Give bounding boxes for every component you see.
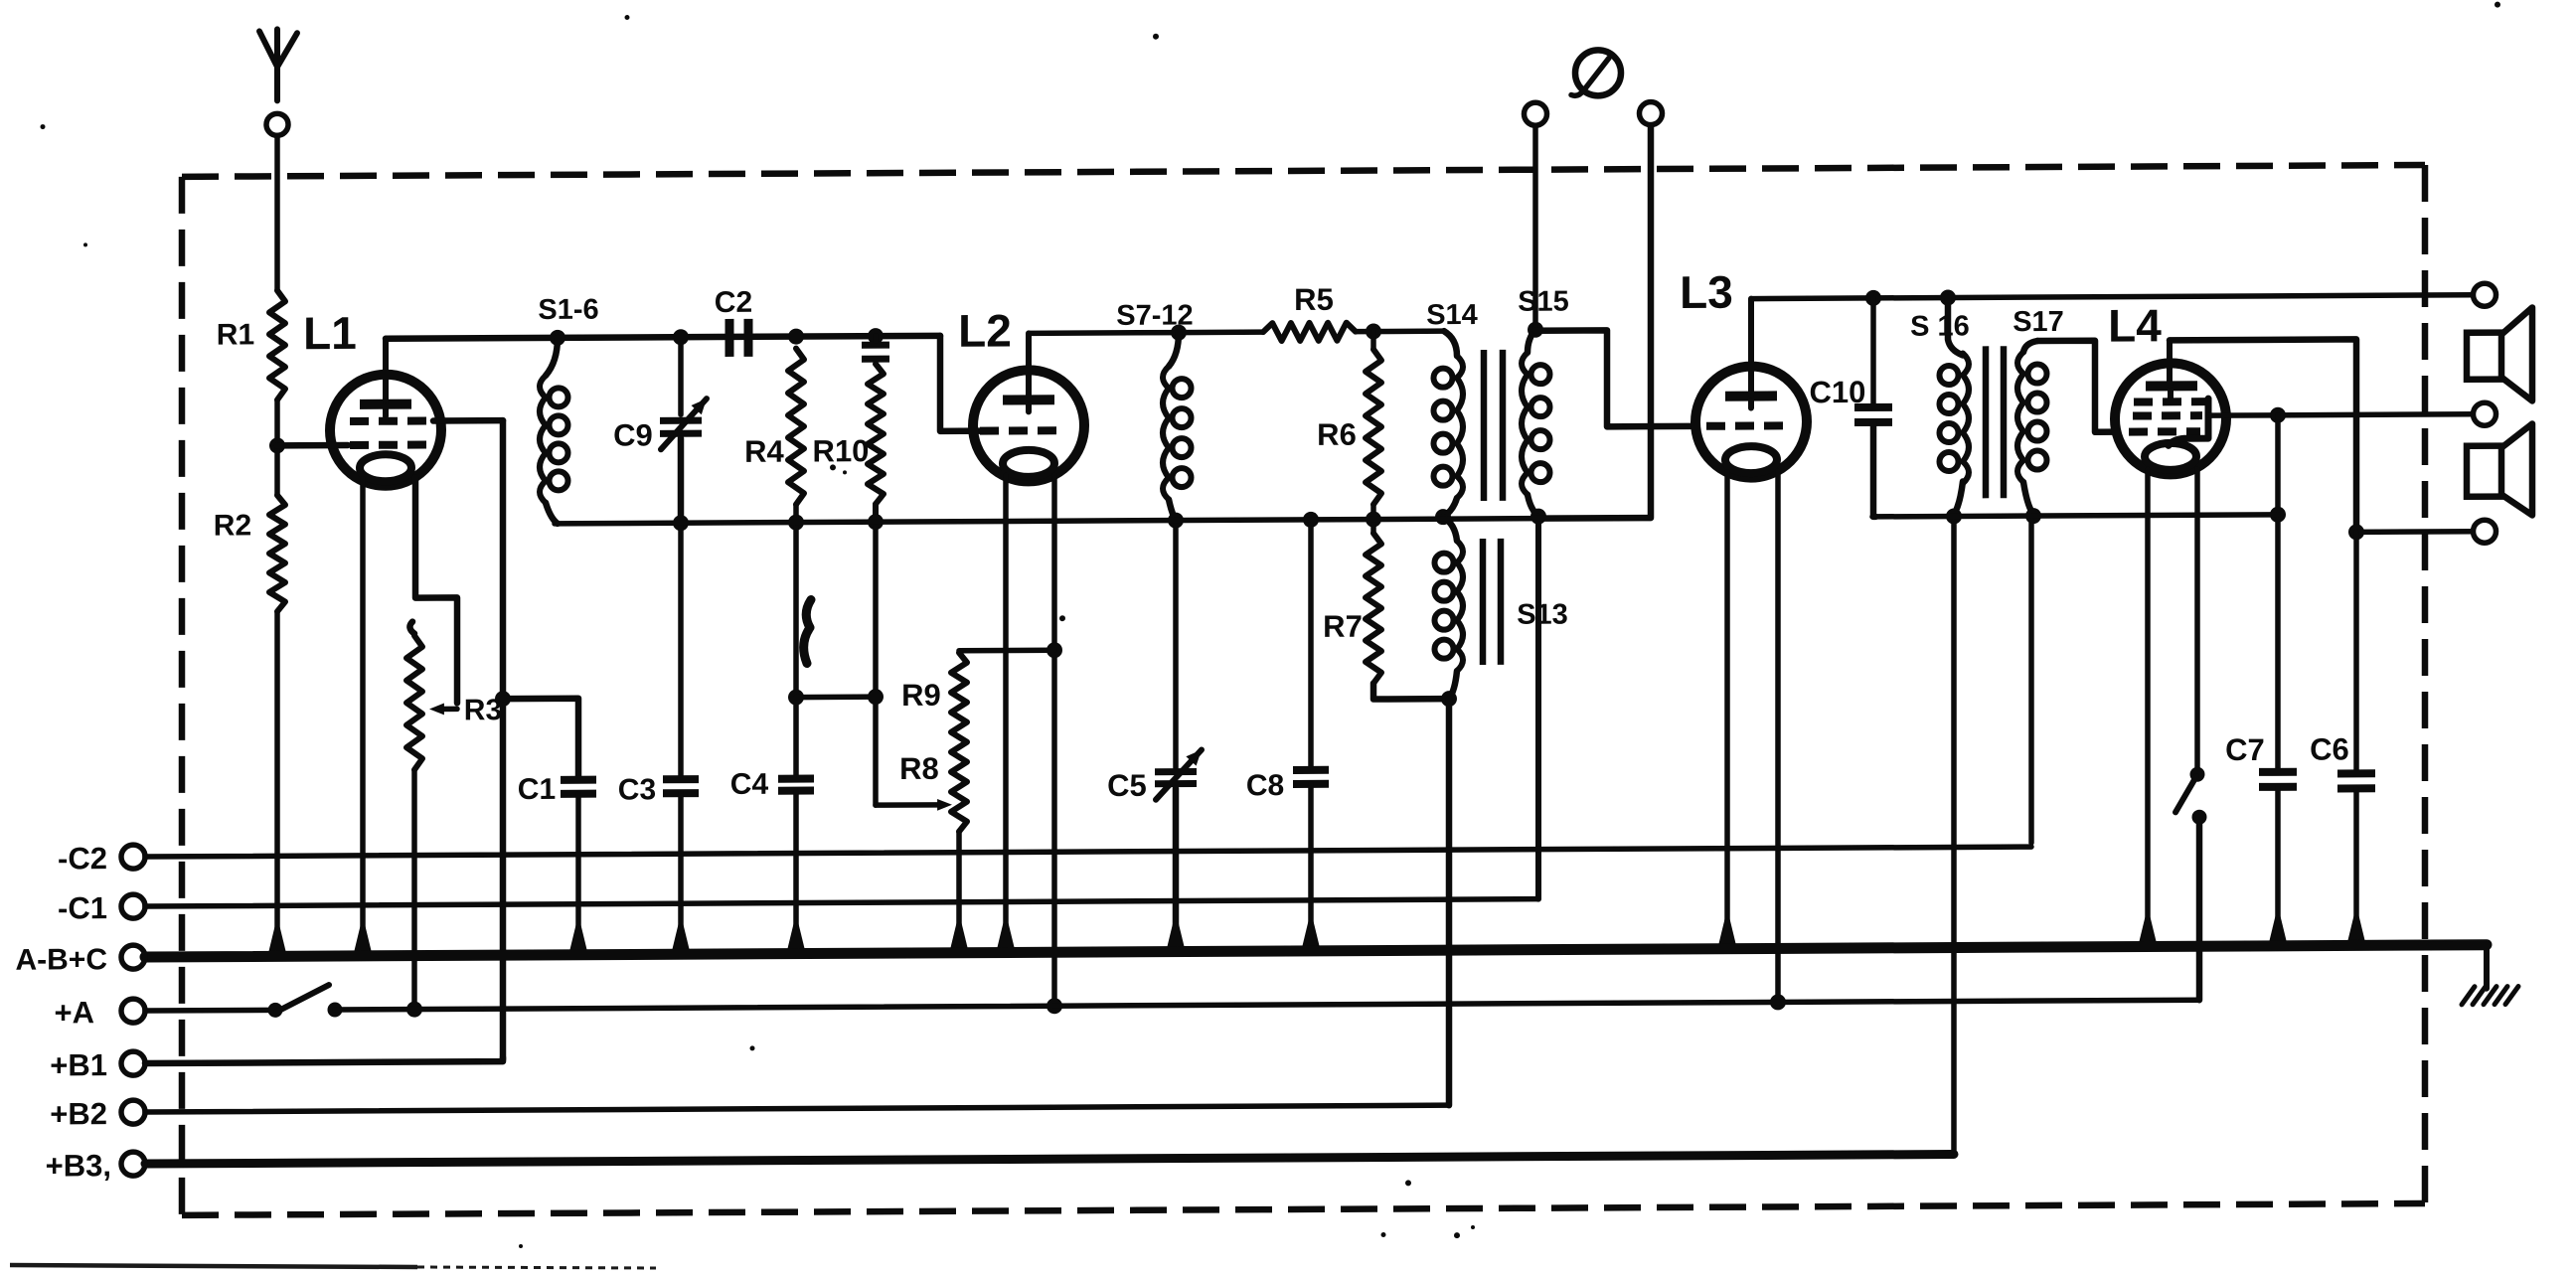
coil S15 (IF transformer secondary) xyxy=(1518,286,1569,517)
wire R5 to S14 xyxy=(1356,328,1444,334)
svg-text:R1: R1 xyxy=(217,318,254,351)
wire R10 riser to wiper xyxy=(873,522,879,805)
capacitor C7 xyxy=(2225,732,2297,787)
switch (+A filament) xyxy=(268,985,343,1018)
node S1-6 top junction xyxy=(550,330,565,346)
wire L1 cathode leg right xyxy=(415,477,457,703)
node R10 top junction xyxy=(868,328,884,344)
node S7-12 top junction xyxy=(1171,325,1187,341)
tube L3 (AF amp triode) xyxy=(1680,265,1807,478)
wire S16 bottom to +B3 xyxy=(1951,516,1957,1150)
variable capacitor C5 xyxy=(1107,749,1202,802)
transformer core S14/S15 xyxy=(1484,350,1503,501)
wire L3 cathode leg left to bus xyxy=(1717,472,1738,952)
svg-text:-C2: -C2 xyxy=(58,841,107,876)
node S16 bottom junction xyxy=(1946,508,1962,524)
wire A-B+C rail (chassis bus) xyxy=(145,945,2487,1001)
tube L1 (RF amp, screen-grid tetrode) xyxy=(303,306,441,486)
svg-text:L2: L2 xyxy=(958,304,1012,356)
wire -C1 rail xyxy=(145,899,1538,906)
resistor R7 xyxy=(1323,520,1381,684)
wire L1 cathode leg left to bus xyxy=(353,479,374,959)
svg-text:+B3,: +B3, xyxy=(46,1148,111,1183)
wire R1 to grid node xyxy=(274,399,280,445)
terminal +A xyxy=(55,995,145,1030)
tube L2 (detector triode) xyxy=(958,304,1084,482)
wire switch to +A xyxy=(2196,817,2203,1000)
wire R9 top xyxy=(959,647,1054,653)
dashed enclosure border (right) xyxy=(2422,165,2429,1203)
capacitor C1 xyxy=(518,773,596,806)
svg-text:S 16: S 16 xyxy=(1910,310,1970,342)
svg-text:C3: C3 xyxy=(618,773,656,806)
wire C9 to lower bus xyxy=(678,438,685,523)
svg-text:R6: R6 xyxy=(1317,417,1357,452)
variable capacitor C9 xyxy=(613,399,707,452)
node R10 bottom junction xyxy=(868,514,884,530)
svg-text:S14: S14 xyxy=(1426,299,1478,331)
wire C3 to A-B+C bus xyxy=(671,793,692,957)
svg-text:C7: C7 xyxy=(2225,732,2265,767)
node R4 bottom junction xyxy=(788,515,804,531)
wire S15 bottom to -C1 rail xyxy=(1535,517,1541,899)
resistor R4 xyxy=(744,349,804,505)
wire L2 cathode leg right to +A xyxy=(1046,475,1062,1014)
wire C6 riser xyxy=(2353,532,2359,769)
wire junction to speaker terminal 3 xyxy=(2356,529,2473,535)
wire lower bus to C8 xyxy=(1308,520,1314,766)
wire L4 screen exit to speaker terminal xyxy=(2208,414,2473,415)
dashed enclosure border (top) xyxy=(182,165,2425,177)
wire lower bus (left section) xyxy=(555,518,1651,524)
wire antenna terminal to R1 xyxy=(274,135,280,290)
node S13 bottom junction xyxy=(1441,691,1457,707)
phone pickup symbol xyxy=(1571,50,1621,95)
wire C10 to lower bus xyxy=(1873,422,1875,517)
wire L4 cathode leg right to switch xyxy=(2194,469,2200,767)
wire lower bus to C7 xyxy=(2275,515,2281,768)
svg-text:+B2: +B2 xyxy=(50,1096,107,1131)
svg-text:R10: R10 xyxy=(813,433,870,468)
wire +B1 rail xyxy=(145,1057,503,1063)
wire top terminal 1 to S15 top xyxy=(1532,126,1538,330)
loudspeaker 1 xyxy=(2467,307,2532,400)
svg-text:C8: C8 xyxy=(1246,769,1284,802)
wire S15 top jog to L3 grid xyxy=(1535,330,1695,427)
svg-text:C2: C2 xyxy=(715,286,752,319)
svg-text:R8: R8 xyxy=(899,751,939,786)
wire L1 screen lead xyxy=(433,417,503,424)
svg-text:R4: R4 xyxy=(744,434,784,469)
wire C5 to A-B+C bus xyxy=(1166,789,1187,955)
wire C8 to A-B+C bus xyxy=(1301,784,1322,954)
capacitor atop R10 xyxy=(862,336,889,359)
rung wire R4-R10 xyxy=(796,689,884,705)
loudspeaker 2 xyxy=(2467,423,2532,515)
svg-text:C5: C5 xyxy=(1107,768,1147,803)
wire R4/C4 riser xyxy=(793,505,799,775)
wire -C2 rail xyxy=(145,847,2031,857)
terminal (top left) xyxy=(1525,102,1547,125)
dashed enclosure border (left) xyxy=(179,177,186,1215)
capacitor C8 xyxy=(1246,769,1329,802)
wire L3 cathode leg right to +A xyxy=(1770,471,1786,1010)
wire top bus to C9 xyxy=(673,329,689,414)
resistor R1 xyxy=(217,290,285,399)
svg-text:L4: L4 xyxy=(2108,299,2162,351)
node rung left junction xyxy=(788,690,804,706)
wire screen junction to C1 xyxy=(503,699,578,776)
svg-text:+B1: +B1 xyxy=(50,1047,107,1082)
capacitor C10 xyxy=(1810,375,1892,422)
capacitor C6 xyxy=(2310,731,2375,788)
wiper arrow into R8 xyxy=(876,799,952,811)
node R9 top junction xyxy=(1046,642,1062,658)
terminal +B3 xyxy=(46,1148,145,1184)
node C10 top junction xyxy=(1865,290,1881,306)
node S15 top junction xyxy=(1528,322,1543,338)
capacitor C2 xyxy=(715,286,752,357)
node S15 bottom junction xyxy=(1530,509,1546,525)
node R4 top junction xyxy=(788,329,804,345)
node R6/R7 junction on lower bus xyxy=(1366,512,1381,528)
node S17 bottom junction xyxy=(2025,508,2041,524)
svg-text:R2: R2 xyxy=(214,509,251,542)
wire +A rail xyxy=(335,1000,2199,1010)
coil S1-6 (antenna coil) xyxy=(538,294,598,524)
svg-text:R9: R9 xyxy=(901,678,941,713)
wire L4 cathode leg left to bus xyxy=(2138,469,2159,949)
resistor R10 xyxy=(813,364,884,522)
resistor R9/R8 chain xyxy=(899,653,967,832)
scan bottom edge artifact xyxy=(10,1265,656,1268)
wire bus to R5 xyxy=(1179,329,1263,335)
svg-text:C4: C4 xyxy=(730,768,769,801)
svg-text:S1-6: S1-6 xyxy=(538,294,598,326)
wire +B3 rail xyxy=(145,1154,1954,1164)
wire R8 to A-B+C bus xyxy=(949,832,970,956)
wire L1 screen riser to +B1 xyxy=(500,420,507,1059)
ground (chassis) xyxy=(2462,987,2518,1005)
coil S17 (output transformer secondary) xyxy=(2012,306,2064,514)
wire R7 bottom to S13 bottom xyxy=(1373,683,1449,699)
wire L1 grid to antenna node xyxy=(277,442,348,449)
wire R2 to A-B+C bus xyxy=(267,611,288,959)
svg-text:A-B+C: A-B+C xyxy=(15,943,107,976)
wire C1 to A-B+C bus xyxy=(568,794,589,958)
svg-text:C10: C10 xyxy=(1810,375,1866,409)
wire L2 cathode leg left to bus xyxy=(996,475,1017,955)
terminal +B2 xyxy=(50,1096,145,1132)
wire S13 bottom to +B2 xyxy=(1446,699,1453,1105)
svg-text:S15: S15 xyxy=(1518,286,1569,318)
svg-text:R7: R7 xyxy=(1323,609,1363,644)
capacitor C3 xyxy=(618,773,699,806)
terminal -C2 xyxy=(58,841,145,876)
terminal speaker 2 xyxy=(2474,402,2496,425)
wire C7 to A-B+C bus xyxy=(2268,787,2289,949)
terminal A-B+C xyxy=(15,943,145,977)
tube L4 (output pentode) xyxy=(2108,299,2226,475)
wire screen junction down to lower bus xyxy=(2275,415,2281,515)
wire top-right bus (L3 plate to speaker terminal) xyxy=(1751,295,2473,299)
wire L2 grid riser xyxy=(940,336,982,431)
svg-text:+A: +A xyxy=(55,995,94,1030)
node screen/C7 top junction xyxy=(2270,407,2286,423)
transformer core S16/S17 xyxy=(1986,346,2004,498)
wire lower bus to C3 xyxy=(678,523,684,775)
svg-text:S7-12: S7-12 xyxy=(1116,300,1193,332)
node S16 top junction xyxy=(1940,289,1956,305)
terminal -C1 xyxy=(58,890,145,925)
node C9/C3 junction on lower bus xyxy=(673,515,689,531)
svg-text:C6: C6 xyxy=(2310,731,2349,766)
svg-text:L1: L1 xyxy=(303,307,357,359)
terminal +B1 xyxy=(50,1047,145,1083)
svg-text:S17: S17 xyxy=(2012,306,2064,338)
svg-text:R5: R5 xyxy=(1294,282,1334,317)
potentiometer R3 (filament rheostat) xyxy=(406,621,502,770)
node S7-12 bottom junction xyxy=(1168,513,1184,529)
svg-text:L3: L3 xyxy=(1680,266,1733,318)
svg-text:-C1: -C1 xyxy=(58,890,107,925)
coil S13 xyxy=(1435,517,1568,700)
wire L4 plate to C6 riser xyxy=(2170,339,2356,528)
node C6/terminal3 junction xyxy=(2348,524,2364,540)
wire bus to C10 xyxy=(1870,298,1876,403)
wire lower bus (right section) xyxy=(1872,515,2278,517)
resistor R2 xyxy=(214,445,285,611)
node C7 junction on lower bus xyxy=(2270,507,2286,523)
wire +B2 rail xyxy=(145,1105,1449,1112)
ink blob artifact xyxy=(804,600,811,664)
wire lower bus to C5 xyxy=(1173,521,1179,768)
wire C4 to A-B+C bus xyxy=(786,791,807,957)
svg-text:S13: S13 xyxy=(1517,599,1568,631)
svg-text:C9: C9 xyxy=(613,417,653,452)
wire R3 to +A line xyxy=(406,770,422,1018)
resistor R6 xyxy=(1317,332,1381,520)
wire C6 to A-B+C bus xyxy=(2346,788,2367,948)
terminal speaker 1 xyxy=(2474,283,2496,306)
antenna terminal xyxy=(266,113,288,135)
wire top bus (L1 plate to L2 grid corner) xyxy=(386,336,940,339)
node S14/S13 junction on lower bus xyxy=(1435,509,1451,525)
terminal speaker 3 xyxy=(2474,520,2496,543)
wire top terminal 2 to S15 bottom xyxy=(1538,125,1651,519)
node screen/C1 junction xyxy=(495,691,511,707)
transformer core S13 xyxy=(1483,539,1501,665)
switch (L4 filament) xyxy=(2175,767,2207,825)
wire L2 plate bus xyxy=(1030,330,1181,336)
coil S14 (IF transformer primary) xyxy=(1426,299,1478,517)
node R6 top junction xyxy=(1366,324,1381,340)
coil S16 (output transformer primary) xyxy=(1910,297,1970,514)
wire S17 top to L4 grid xyxy=(2037,341,2115,432)
terminal (top right) xyxy=(1640,102,1663,125)
coil S7-12 (detector coil) xyxy=(1116,300,1193,521)
antenna xyxy=(259,29,297,100)
node grid L1 junction xyxy=(269,437,285,453)
wire S17 bottom to -C2 xyxy=(2028,516,2034,843)
node C8 top junction xyxy=(1303,512,1319,528)
dashed enclosure border (bottom) xyxy=(182,1203,2425,1215)
capacitor C4 xyxy=(730,768,814,801)
wire +A rail (left of switch) xyxy=(145,1008,275,1014)
resistor R5 xyxy=(1263,282,1356,341)
svg-text:C1: C1 xyxy=(518,773,556,806)
